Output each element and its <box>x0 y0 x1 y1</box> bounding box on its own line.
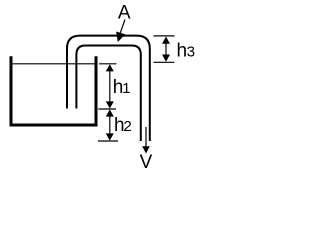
bottom tick (outlet level) <box>98 140 118 142</box>
svg-text:h3: h3 <box>177 41 196 62</box>
water surface line <box>13 63 95 65</box>
svg-text:h1: h1 <box>113 77 131 98</box>
mid tick (tube inlet level) <box>98 108 116 110</box>
siphon tube outer wall <box>67 36 150 141</box>
h3 bottom tick <box>154 61 175 63</box>
siphon tube inner wall <box>76 46 140 142</box>
tank (open container) <box>10 56 98 125</box>
h2 dimension arrow <box>109 112 111 137</box>
svg-text:h2: h2 <box>114 115 132 136</box>
h1 top tick (at water level) <box>99 63 117 65</box>
h3 top tick <box>154 35 175 37</box>
h1 dimension arrow <box>109 68 111 105</box>
svg-text:V: V <box>140 152 153 173</box>
velocity arrow at outlet <box>145 127 147 147</box>
arrow from A to tube top <box>120 20 125 34</box>
h3 dimension arrow <box>165 40 167 58</box>
